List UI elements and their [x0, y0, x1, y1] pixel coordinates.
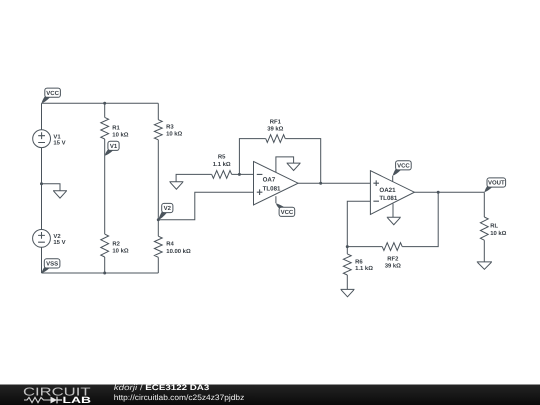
resistor R6	[343, 254, 351, 275]
svg-text:R5: R5	[218, 154, 226, 161]
node junction RF1/output	[319, 182, 322, 185]
wire R1 top	[104, 103, 106, 117]
svg-text:RF1: RF1	[270, 118, 282, 125]
svg-text:TL081: TL081	[379, 195, 397, 202]
node junction left rail/ground	[40, 182, 43, 185]
node junction minus input	[238, 173, 241, 176]
svg-text:RL: RL	[490, 223, 498, 230]
wire OA7 V+ pin to ground	[276, 157, 294, 172]
wire OA21 output to VOUT	[414, 191, 484, 193]
flag VCC (OA7)	[276, 203, 285, 208]
svg-text:kdorji / ECE3122 DA3: kdorji / ECE3122 DA3	[114, 383, 210, 392]
resistor RL	[480, 217, 488, 240]
resistor RF2	[382, 243, 402, 251]
svg-text:1.1 kΩ: 1.1 kΩ	[355, 265, 373, 272]
ground (left of R5)	[169, 182, 183, 189]
node junction R6/RF2	[346, 245, 349, 248]
wire R3 to node V2	[157, 140, 159, 220]
flag VOUT	[484, 186, 492, 193]
wire node V2 to OA7 plus input	[158, 192, 253, 220]
svg-text:V2: V2	[53, 233, 61, 240]
svg-text:VCC: VCC	[397, 162, 410, 169]
voltage source V1	[33, 130, 51, 148]
wire RL top	[483, 192, 485, 217]
logo diode	[51, 397, 58, 404]
svg-text:15 V: 15 V	[53, 239, 65, 246]
flag V2 node	[158, 211, 167, 220]
svg-text:R2: R2	[112, 241, 120, 248]
flag VCC (OA21)	[393, 168, 402, 175]
resistor R1	[101, 117, 109, 139]
wire RF2 to output riser	[402, 192, 438, 246]
node junction V2	[157, 218, 160, 221]
wire node to RF2	[347, 246, 382, 248]
logo waveform	[24, 397, 51, 402]
svg-text:http://circuitlab.com/c25z4z37: http://circuitlab.com/c25z4z37pjdbz	[114, 393, 245, 402]
ground (RL)	[477, 262, 492, 269]
wire ground stub	[42, 184, 61, 191]
svg-text:VCC: VCC	[281, 209, 294, 216]
node junction output/RF2	[437, 191, 440, 194]
svg-text:V1: V1	[53, 133, 61, 140]
svg-text:V2: V2	[164, 205, 172, 212]
wire R3 top	[157, 103, 159, 119]
wire R4 bottom	[157, 257, 159, 273]
wire OA21 V- pin to ground	[392, 204, 394, 218]
svg-text:15 V: 15 V	[53, 139, 65, 146]
svg-text:1.1 kΩ: 1.1 kΩ	[213, 161, 231, 168]
svg-text:VOUT: VOUT	[488, 180, 505, 187]
wire OA21 V+ pin	[392, 176, 394, 182]
svg-text:RF2: RF2	[387, 255, 399, 262]
ground (OA7 supply)	[287, 163, 301, 170]
wire R5 left to ground	[176, 174, 212, 181]
svg-text:10.00 kΩ: 10.00 kΩ	[166, 248, 191, 255]
ground (R6)	[341, 289, 355, 296]
resistor R4	[154, 236, 162, 257]
op-amp OA7	[254, 162, 299, 205]
wire R5 to OA7 minus input	[232, 173, 254, 175]
wire R1 to R2 (node V1)	[104, 139, 106, 234]
wire OA7 V- pin	[275, 196, 277, 203]
svg-text:TL081: TL081	[263, 186, 281, 193]
svg-text:10 kΩ: 10 kΩ	[490, 230, 506, 237]
wire V1 to V2	[41, 148, 43, 230]
svg-text:VSS: VSS	[46, 261, 58, 268]
wire top rail	[42, 102, 159, 104]
wire RF1 to output	[285, 139, 321, 184]
resistor R2	[101, 234, 109, 257]
wire R2 bottom	[104, 257, 106, 273]
ground (between V1 and V2)	[53, 191, 67, 198]
svg-text:39 kΩ: 39 kΩ	[385, 263, 401, 270]
svg-text:R3: R3	[166, 124, 174, 131]
svg-text:39 kΩ: 39 kΩ	[267, 125, 283, 132]
wire V2 to bottom rail	[41, 247, 43, 273]
resistor R5	[212, 171, 232, 179]
voltage source V2	[33, 230, 51, 248]
wire bottom rail	[42, 272, 159, 274]
ground (OA21 supply)	[387, 217, 401, 224]
wire feedback riser left	[239, 139, 265, 175]
svg-text:10 kΩ: 10 kΩ	[112, 131, 128, 138]
svg-text:LAB: LAB	[63, 395, 92, 405]
wire node V2 to R4	[157, 220, 159, 236]
flag V1 node	[105, 149, 114, 156]
svg-text:10 kΩ: 10 kΩ	[166, 130, 182, 137]
wire OA21 minus input to feedback node	[347, 201, 370, 246]
svg-text:OA21: OA21	[379, 187, 396, 194]
resistor R3	[154, 120, 162, 140]
wire OA7 output to OA21 plus input	[298, 182, 370, 184]
node junction top rail/R1	[103, 102, 106, 105]
svg-text:V1: V1	[110, 143, 118, 150]
resistor RF1	[266, 135, 286, 143]
wire node to R6	[346, 247, 348, 254]
svg-text:OA7: OA7	[263, 177, 276, 184]
svg-text:10 kΩ: 10 kΩ	[112, 247, 128, 254]
wire R6 to ground	[346, 275, 348, 289]
svg-text:R1: R1	[112, 125, 120, 132]
flag VCC (top left)	[42, 96, 51, 104]
node junction bottom rail/R2	[103, 272, 106, 275]
wire RL to ground	[483, 240, 485, 262]
svg-text:R6: R6	[355, 258, 363, 265]
wire left rail upper	[41, 103, 43, 130]
svg-text:R4: R4	[166, 241, 174, 248]
svg-text:VCC: VCC	[46, 90, 59, 97]
op-amp OA21	[370, 171, 414, 215]
flag VSS (bottom left)	[42, 267, 50, 274]
